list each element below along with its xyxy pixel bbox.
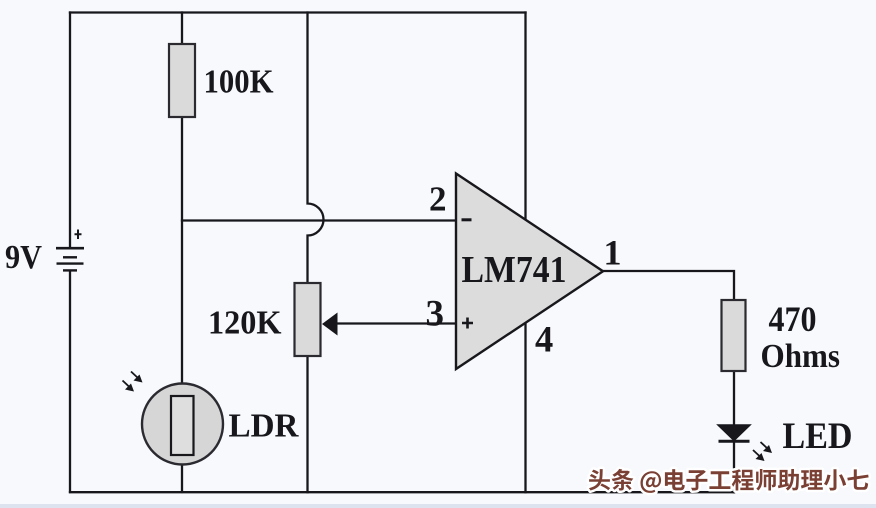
svg-text:120K: 120K xyxy=(208,305,282,342)
watermark 头条 @电子工程师助理小七 text xyxy=(589,469,869,493)
svg-text:3: 3 xyxy=(426,294,445,335)
op-amp U1 LM741 triangle xyxy=(456,174,603,370)
wire pot bottom to ground rail xyxy=(306,354,308,492)
wire left border upper (battery + side) xyxy=(69,13,71,248)
svg-text:1: 1 xyxy=(604,233,622,273)
wire inverting input node to pin 2 xyxy=(182,219,456,221)
wire left border lower (battery - side) xyxy=(69,272,71,493)
resistor R1 100K xyxy=(169,44,195,117)
LDR incident light arrow upper xyxy=(131,372,143,383)
watermark 头条 @电子工程师助理小七 white glow xyxy=(589,469,869,493)
svg-text:LM741: LM741 xyxy=(462,249,567,291)
LED emission arrow upper xyxy=(761,442,773,453)
resistor R3 470 Ohms xyxy=(722,300,746,371)
svg-text:2: 2 xyxy=(429,180,447,219)
svg-text:4: 4 xyxy=(535,319,553,360)
potentiometer R2 120K body xyxy=(295,283,321,356)
svg-text:LED: LED xyxy=(783,416,853,457)
wire 470 ohm resistor to LED xyxy=(733,369,735,425)
LDR incident light arrow lower xyxy=(123,381,135,392)
wire LED cathode to ground rail xyxy=(733,441,735,492)
wire 100K branch from top rail xyxy=(181,13,183,47)
svg-text:470: 470 xyxy=(769,299,817,339)
wire op-amp output pin 1 xyxy=(601,271,734,302)
potentiometer wiper arrow xyxy=(322,313,338,336)
LDR inner resistor element xyxy=(171,396,194,455)
svg-text:LDR: LDR xyxy=(229,408,299,445)
svg-text:100K: 100K xyxy=(204,64,274,101)
wire 100K to LDR xyxy=(181,115,183,492)
battery B1 9V xyxy=(56,230,84,271)
op-amp plus marker xyxy=(462,318,473,329)
wire right border / op-amp pin 4 line xyxy=(524,13,526,493)
wire middle branch from top rail with hop over pin-2 wire xyxy=(308,13,324,286)
svg-text:9V: 9V xyxy=(5,239,42,276)
wire pot wiper to pin 3 xyxy=(336,322,456,324)
svg-text:Ohms: Ohms xyxy=(761,338,841,375)
op-amp minus marker xyxy=(462,218,472,221)
LED D1 triangle xyxy=(718,425,750,441)
LDR photoresistor circle xyxy=(142,384,223,465)
LED cathode bar xyxy=(719,440,750,443)
wire bottom rail xyxy=(70,491,734,493)
wire top rail xyxy=(70,11,526,13)
LED emission arrow lower xyxy=(753,450,765,461)
